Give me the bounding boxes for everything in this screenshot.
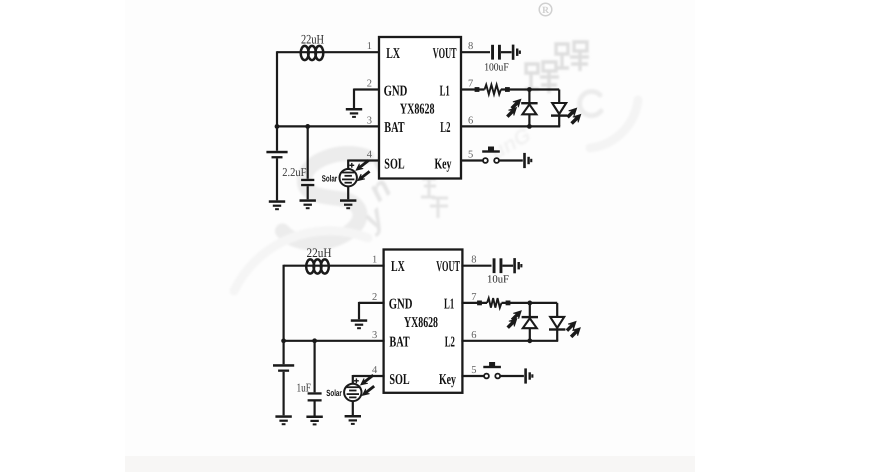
svg-text:VOUT: VOUT [433,46,457,62]
ground cap ground 1 [300,199,316,209]
wire SOL pin stub 1 [348,159,380,161]
LED D1b arrow 1 [565,106,579,120]
wire solar to ground 2 [352,401,354,415]
ground battery ground 1 [269,200,285,210]
wire LED2 top lead 1 [558,90,560,104]
IC U1 YX8628 body [379,37,461,179]
inductor L1 22uH [301,46,324,60]
ground GND pin ground 2 [351,319,367,329]
wire GND pin stub 2 [359,302,385,304]
svg-text:2.2uF: 2.2uF [282,165,306,179]
plus sign solar polarity 1 [349,163,354,168]
wire solar to ground 1 [347,186,349,199]
wire LED1 top lead 1 [528,90,530,104]
svg-text:YX8628: YX8628 [404,315,438,331]
svg-text:6: 6 [471,330,476,341]
battery BT1 [266,151,287,159]
wire LED2 top lead 2 [556,303,558,317]
wire left rail lower 1 [276,158,278,200]
IC U2 YX8628 body [384,250,463,393]
solar arrow 2 of PV1 [356,169,371,183]
wire VOUT stub 2 [461,265,491,267]
svg-text:8: 8 [471,255,476,266]
svg-text:SOL: SOL [389,372,409,388]
svg-text:Solar: Solar [322,174,338,184]
node rail-BAT junction 2 (junction dot) [281,338,286,343]
svg-text:7: 7 [471,292,476,303]
wire GND pin drop 2 [358,302,360,319]
wire cap to ground 2 [314,402,316,416]
LED D2a arrow 2 [505,316,519,330]
solar arrow 1 of PV1 [354,158,370,172]
ground VOUT ground 2 (sideways) [513,258,522,273]
LED D2a arrow 1 [510,308,524,322]
ground solar ground 1 [340,199,356,209]
svg-text:3: 3 [372,330,377,341]
svg-text:LX: LX [391,259,405,275]
svg-text:1: 1 [372,255,377,266]
svg-text:22uH: 22uH [307,245,332,260]
pad resistor pad right 1 [505,87,510,92]
pad resistor pad left 1 [475,87,480,92]
LED D1a arrow 2 [505,105,519,119]
svg-text:BAT: BAT [389,334,409,350]
capacitor C2a 1uF plates [308,392,322,401]
svg-text:Solar: Solar [326,388,342,398]
svg-text:Key: Key [435,157,452,173]
svg-text:Key: Key [439,372,456,388]
svg-text:4: 4 [372,365,378,376]
pushbutton SW2 [483,362,501,378]
wire cap branch 1 [307,126,309,178]
LED D1b arrow 2 [569,112,583,126]
wire Key stub 1 [460,159,483,161]
wire LED top rail 1 [501,88,559,90]
ground VOUT ground 1 (sideways) [512,45,521,60]
plus sign solar polarity 2 [354,378,359,383]
wire left rail upper 1 [276,51,278,151]
wire BAT net 1 [277,125,380,127]
wire LED2 bottom lead 1 [558,116,560,127]
svg-text:2: 2 [367,79,372,90]
wire L1 stub 1 [460,88,485,90]
resistor R1 [485,85,501,95]
svg-text:VOUT: VOUT [436,259,460,275]
wire GND pin drop 1 [353,89,355,109]
svg-text:10uF: 10uF [487,274,509,286]
ground Key ground 1 (sideways) [523,153,532,168]
LED D2b arrow 2 [569,325,583,339]
node LED1 top junction 1 (junction dot) [527,87,532,92]
svg-text:1uF: 1uF [297,381,312,395]
wire Key stub 2 [461,375,484,377]
pushbutton SW1 [482,147,500,163]
resistor R2 [487,298,502,308]
svg-text:5: 5 [468,150,473,161]
LED D2b (cathode down) [549,317,565,331]
wire VOUT cap to ground 2 [503,265,514,267]
wire cap branch 2 [314,341,316,393]
svg-text:LX: LX [386,46,400,62]
wire L1 stub 2 [461,302,487,304]
node cap branch junction 1 (junction dot) [305,124,310,129]
svg-text:22uH: 22uH [301,31,324,46]
node rail-BAT junction 1 (junction dot) [275,124,280,129]
capacitor C2b 10uF plates [493,258,503,273]
svg-text:L1: L1 [444,296,454,312]
node cap branch junction 2 (junction dot) [312,338,317,343]
svg-text:6: 6 [468,115,473,126]
solar cell PV2 [344,384,361,401]
wire VOUT stub 1 [460,51,490,53]
wire LX net top 1 [277,51,380,53]
svg-text:L1: L1 [440,83,450,99]
solar cell PV1 [340,169,357,186]
svg-text:3: 3 [367,115,372,126]
svg-text:GND: GND [389,296,413,312]
svg-text:L2: L2 [440,120,450,136]
svg-text:8: 8 [468,41,473,52]
wire VOUT cap to ground 1 [501,51,512,53]
wire left rail lower 2 [283,372,285,416]
solar arrow 1 of PV2 [359,373,375,387]
svg-text:L2: L2 [445,334,455,350]
capacitor C1a 2.2uF plates [301,179,314,186]
wire LED top rail 2 [502,302,558,304]
LED D1a (cathode up) [521,102,537,114]
svg-text:1: 1 [367,41,372,52]
LED D1a arrow 1 [509,97,523,111]
node LED1 bottom junction 2 (junction dot) [527,338,532,343]
battery BT2 [273,364,294,372]
wire LED1 top lead 2 [529,303,531,317]
LED D1b (cathode down) [551,103,567,117]
wire GND pin stub 1 [354,88,380,90]
wire SOL pin stub 2 [353,375,385,377]
wire Key to ground 1 [499,159,523,161]
wire LX net top 2 [284,265,385,267]
wire LED1 bottom lead 2 [529,328,531,341]
svg-text:GND: GND [384,83,408,99]
LED D2b arrow 1 [565,319,579,333]
solar arrow 2 of PV2 [360,384,375,398]
svg-text:YX8628: YX8628 [400,101,435,117]
wire LED1 bottom lead 1 [528,114,530,126]
wire SOL drop 1 [347,160,349,170]
decorative watermark [125,0,695,472]
LED D2a (cathode up) [522,316,538,328]
wire SOL drop 2 [352,375,354,384]
svg-text:4: 4 [367,150,373,161]
node LED1 bottom junction 1 (junction dot) [527,124,532,129]
capacitor C1b 100uF plates [491,45,501,60]
wire left rail upper 2 [283,265,285,365]
wire cap to ground 1 [307,186,309,199]
wire L2 net bottom rail 2 [461,340,558,342]
wire Key to ground 2 [500,375,524,377]
svg-text:100uF: 100uF [484,62,509,74]
ground GND pin ground 1 [346,108,362,118]
ground battery ground 2 [275,415,291,425]
svg-text:5: 5 [471,365,476,376]
wire BAT net 2 [284,340,385,342]
ground Key ground 2 (sideways) [524,368,533,383]
node LED1 top junction 2 (junction dot) [527,301,532,306]
ground solar ground 2 [345,415,361,425]
inductor L2 22uH [306,259,329,273]
wire L2 net bottom rail 1 [460,125,560,127]
svg-text:SOL: SOL [384,157,404,173]
svg-text:7: 7 [468,79,473,90]
pad resistor pad left 2 [477,301,482,306]
wire LED2 bottom lead 2 [556,330,558,341]
svg-text:BAT: BAT [384,120,404,136]
svg-text:2: 2 [372,292,377,303]
svg-text:R: R [542,6,549,16]
pad resistor pad right 2 [506,301,511,306]
ground cap ground 2 [306,416,322,426]
